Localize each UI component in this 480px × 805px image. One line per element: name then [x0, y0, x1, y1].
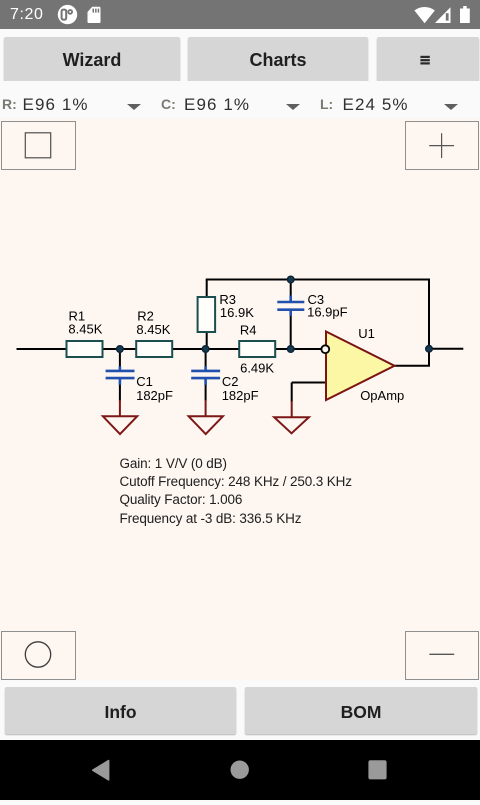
svg-text:8.45K: 8.45K [68, 322, 102, 337]
svg-text:8.45K: 8.45K [136, 322, 170, 337]
svg-text:6.49K: 6.49K [240, 361, 274, 376]
svg-text:U1: U1 [358, 326, 375, 341]
svg-text:16.9K: 16.9K [220, 305, 254, 320]
svg-text:OpAmp: OpAmp [360, 388, 404, 403]
svg-text:16.9pF: 16.9pF [307, 304, 348, 319]
svg-text:C2: C2 [222, 374, 239, 389]
svg-text:182pF: 182pF [136, 388, 173, 403]
svg-text:R4: R4 [240, 323, 257, 338]
svg-text:182pF: 182pF [222, 388, 259, 403]
svg-text:C1: C1 [136, 374, 153, 389]
